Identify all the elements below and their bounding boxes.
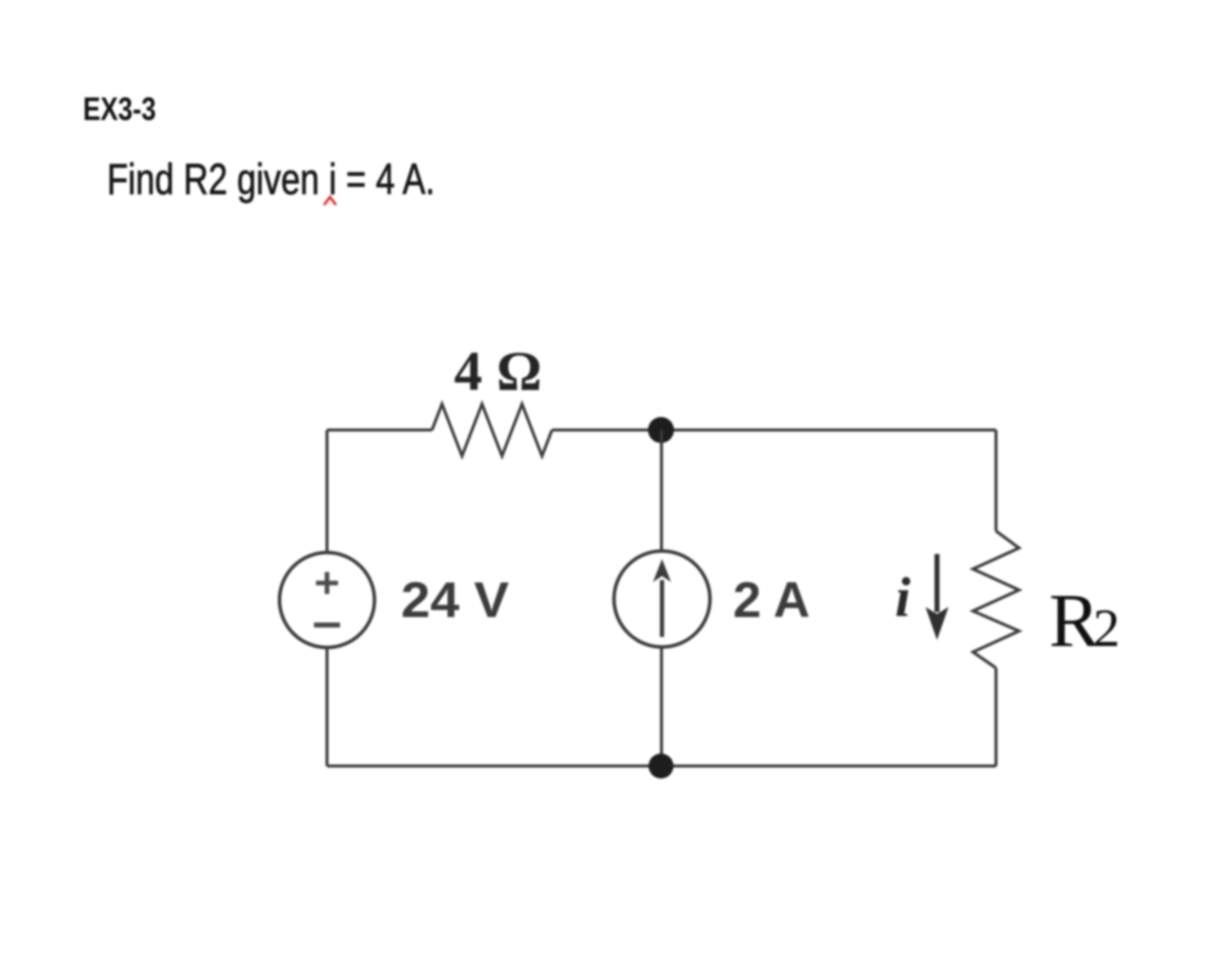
current source I1 circle — [614, 551, 710, 647]
svg-text:2: 2 — [1093, 598, 1120, 658]
svg-text:EX3-3: EX3-3 — [83, 91, 156, 127]
svg-text:i: i — [895, 567, 911, 629]
voltage source V1 circle — [280, 553, 375, 648]
spellcheck red mark under i — [324, 197, 336, 205]
wire: middle branch lower segment — [660, 647, 663, 766]
svg-text:24 V: 24 V — [401, 572, 510, 628]
wire: bottom horizontal segment — [327, 765, 996, 768]
wire: right vertical upper segment — [995, 430, 998, 531]
node B bottom junction dot — [649, 754, 674, 779]
minus sign of V1 — [314, 623, 340, 628]
resistor R1 4-ohm zigzag — [432, 404, 552, 456]
node A top junction dot — [648, 417, 674, 443]
svg-text:2 A: 2 A — [733, 572, 810, 628]
wire: right vertical lower segment — [995, 668, 998, 766]
plus sign of V1 — [316, 572, 338, 594]
wire: top middle-right horizontal segment — [552, 429, 996, 432]
current direction arrow (down) — [935, 554, 940, 612]
wire: left vertical upper segment — [326, 430, 329, 553]
current source I1 arrow (up) — [660, 580, 664, 637]
wire: top-left horizontal segment — [327, 429, 432, 432]
resistor R2 zigzag — [973, 531, 1019, 668]
wire: left vertical lower segment — [326, 647, 329, 766]
wire: middle branch upper segment — [660, 430, 663, 551]
svg-text:Find R2 given i = 4 A.: Find R2 given i = 4 A. — [107, 155, 435, 204]
svg-text:4 Ω: 4 Ω — [454, 341, 542, 403]
